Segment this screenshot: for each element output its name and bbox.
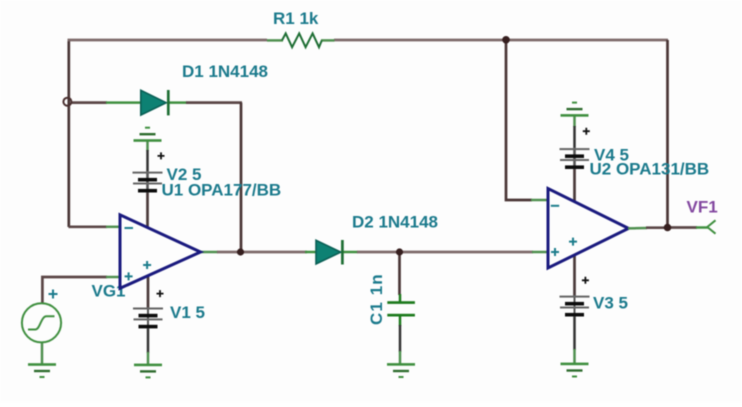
label D2 1N4148: [352, 212, 438, 231]
label U1 OPA177/BB: [162, 181, 282, 200]
wire battery V3 to ground: [573, 314, 576, 364]
wire top feedback left segment: [68, 40, 268, 227]
op-amp U2: [548, 189, 629, 269]
label V2 plus sign: [158, 152, 165, 159]
svg-text:D1 1N4148: D1 1N4148: [182, 62, 268, 81]
wire top feedback right segment: [334, 39, 668, 42]
node C junction capacitor: [396, 248, 403, 255]
wire D2 anode lead: [305, 251, 317, 254]
wire VG to U1 non-inverting input: [42, 277, 122, 304]
wire U1 inverting input: [69, 225, 123, 228]
svg-text:R1 1k: R1 1k: [273, 9, 319, 28]
node VF junction: [664, 224, 672, 232]
source VG1: [22, 303, 61, 342]
ground below VG1: [28, 363, 56, 378]
wire U1 negative supply pin to battery V1: [147, 270, 150, 309]
wire ground to battery V4: [573, 115, 576, 167]
wire U1 output node to VF node: [668, 226, 709, 229]
wire D1 cathode to feedback vertical: [169, 101, 242, 104]
label VG1 plus sign: [49, 290, 58, 299]
label V3 plus sign: [582, 277, 589, 284]
wire capacitor C1 to ground: [399, 316, 402, 364]
svg-text:V1 5: V1 5: [170, 303, 205, 322]
label V4 plus sign: [583, 128, 590, 135]
output pin VF1: [707, 220, 715, 233]
wire battery V4 to U2 positive supply pin: [573, 166, 576, 208]
label V2 5: [167, 165, 202, 184]
node B junction top: [502, 36, 510, 44]
ground below battery V1: [134, 364, 162, 379]
wire ground to battery V2: [146, 141, 149, 192]
battery V1: [133, 307, 163, 329]
wire D2 to U2 non-inverting input: [357, 251, 549, 254]
wire D2 cathode lead: [342, 251, 358, 254]
ground above battery V4: [561, 102, 589, 117]
wire U2 negative supply pin to battery V3: [573, 248, 576, 297]
svg-text:C1 1n: C1 1n: [367, 273, 386, 325]
ground above battery V2: [134, 127, 162, 142]
capacitor C1: [387, 301, 415, 316]
resistor R1: [267, 33, 335, 47]
node A junction: [63, 98, 71, 106]
svg-text:U2 OPA131/BB: U2 OPA131/BB: [590, 159, 710, 178]
wire D1 anode lead: [71, 101, 142, 104]
label C1 1n: [367, 273, 386, 325]
wire U2 output: [628, 226, 668, 229]
wire U2 inverting input from node B: [506, 41, 549, 200]
diode D1: [141, 90, 169, 115]
label V4 5: [594, 146, 629, 165]
label V3 5: [593, 294, 628, 313]
svg-text:U1 OPA177/BB: U1 OPA177/BB: [162, 181, 282, 200]
wire battery V2 to U1 positive supply pin: [146, 190, 149, 234]
svg-text:VF1: VF1: [687, 197, 718, 216]
wire U1 output: [200, 251, 307, 254]
wire battery V1 to ground: [147, 326, 150, 365]
node U1 output junction: [237, 248, 244, 255]
battery V2: [133, 171, 163, 193]
ground below battery V3: [561, 363, 589, 378]
battery V4: [560, 148, 590, 170]
ground below capacitor C1: [387, 363, 415, 378]
label V1 5: [170, 303, 205, 322]
wire feedback vertical D1 to U1 output: [240, 103, 243, 252]
label V1 plus sign: [157, 290, 164, 297]
label R1 1k: [273, 9, 319, 28]
diode D2: [316, 240, 342, 265]
label VG1: [92, 282, 126, 301]
op-amp U1: [120, 215, 201, 288]
label U2 OPA131/BB: [590, 159, 710, 178]
label VF1: [687, 197, 718, 216]
label D1 1N4148: [182, 62, 268, 81]
svg-text:V3 5: V3 5: [593, 294, 628, 313]
svg-text:D2 1N4148: D2 1N4148: [352, 212, 438, 231]
battery V3: [560, 295, 590, 317]
wire VG source to ground: [41, 343, 44, 365]
wire node C to capacitor C1: [398, 253, 401, 303]
wire right vertical to output node: [666, 40, 669, 228]
